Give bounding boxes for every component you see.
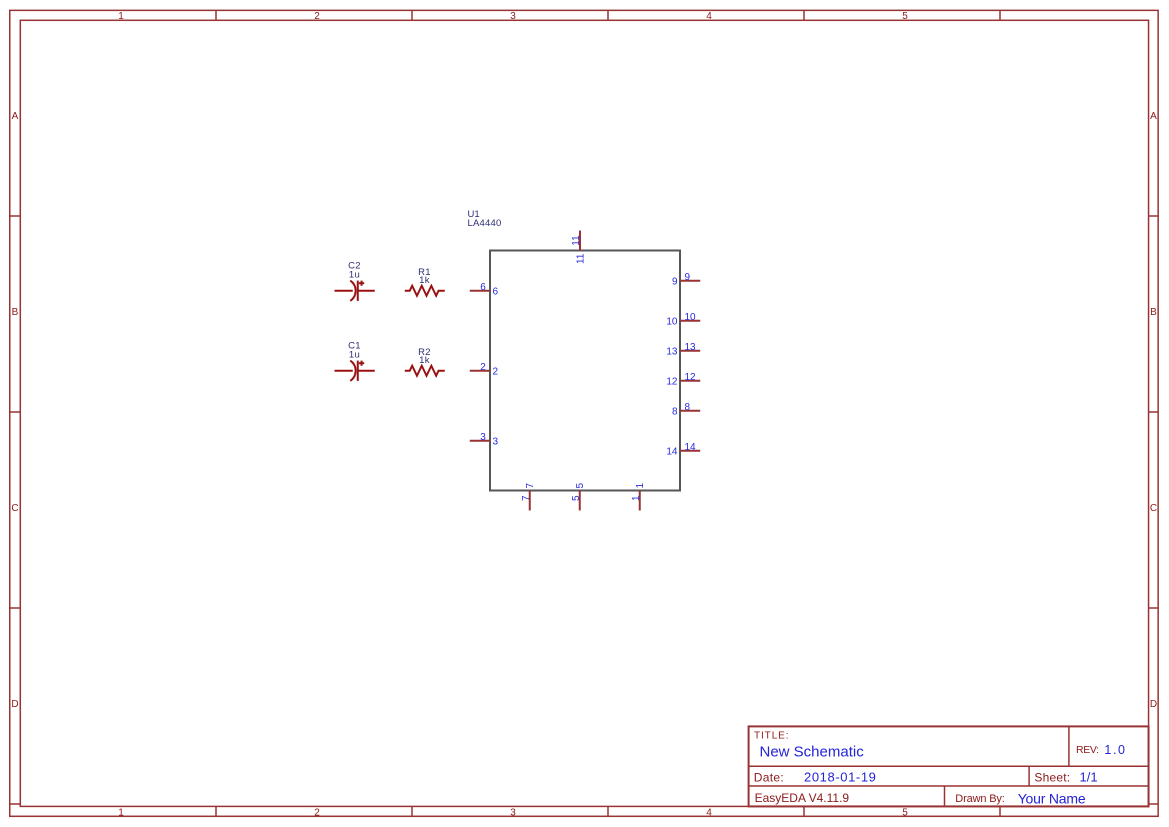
svg-text:5: 5 bbox=[575, 483, 586, 489]
svg-text:4: 4 bbox=[706, 11, 712, 22]
svg-text:8: 8 bbox=[672, 406, 678, 417]
svg-text:D: D bbox=[11, 699, 18, 710]
svg-text:1: 1 bbox=[635, 483, 646, 489]
svg-text:4: 4 bbox=[706, 808, 712, 819]
svg-text:6: 6 bbox=[480, 282, 486, 293]
svg-text:1/1: 1/1 bbox=[1080, 769, 1098, 784]
svg-text:3: 3 bbox=[510, 11, 516, 22]
svg-text:11: 11 bbox=[575, 253, 586, 264]
svg-text:9: 9 bbox=[672, 276, 678, 287]
svg-text:12: 12 bbox=[685, 372, 697, 383]
svg-text:10: 10 bbox=[685, 312, 697, 323]
svg-text:14: 14 bbox=[666, 446, 678, 457]
svg-text:1u: 1u bbox=[349, 349, 360, 360]
svg-text:13: 13 bbox=[685, 342, 697, 353]
svg-text:3: 3 bbox=[493, 436, 499, 447]
svg-text:5: 5 bbox=[902, 11, 908, 22]
svg-text:B: B bbox=[12, 307, 19, 318]
svg-text:13: 13 bbox=[666, 346, 678, 357]
svg-text:5: 5 bbox=[571, 495, 582, 501]
svg-text:8: 8 bbox=[685, 402, 691, 413]
svg-text:2: 2 bbox=[314, 11, 320, 22]
svg-text:C: C bbox=[11, 503, 18, 514]
svg-text:1: 1 bbox=[118, 11, 124, 22]
svg-text:New Schematic: New Schematic bbox=[760, 744, 865, 761]
svg-text:3: 3 bbox=[480, 432, 486, 443]
svg-text:A: A bbox=[1150, 111, 1157, 122]
svg-text:12: 12 bbox=[666, 376, 678, 387]
svg-text:2018-01-19: 2018-01-19 bbox=[804, 769, 877, 784]
svg-text:3: 3 bbox=[510, 808, 516, 819]
svg-text:D: D bbox=[1150, 699, 1157, 710]
svg-text:REV:: REV: bbox=[1076, 744, 1099, 756]
svg-text:TITLE:: TITLE: bbox=[754, 731, 789, 742]
svg-text:EasyEDA V4.11.9: EasyEDA V4.11.9 bbox=[755, 791, 850, 805]
svg-text:14: 14 bbox=[685, 442, 697, 453]
svg-text:Sheet:: Sheet: bbox=[1034, 770, 1070, 784]
svg-text:1k: 1k bbox=[419, 355, 430, 366]
svg-text:1.0: 1.0 bbox=[1104, 743, 1126, 757]
svg-text:10: 10 bbox=[666, 316, 678, 327]
svg-text:LA4440: LA4440 bbox=[468, 218, 502, 229]
svg-text:B: B bbox=[1150, 307, 1157, 318]
svg-text:11: 11 bbox=[571, 235, 582, 246]
svg-text:Drawn By:: Drawn By: bbox=[955, 793, 1004, 805]
svg-text:6: 6 bbox=[493, 286, 499, 297]
svg-text:1k: 1k bbox=[419, 275, 430, 286]
svg-text:7: 7 bbox=[521, 495, 532, 501]
svg-text:2: 2 bbox=[480, 362, 486, 373]
svg-text:9: 9 bbox=[685, 272, 691, 283]
svg-text:7: 7 bbox=[525, 483, 536, 489]
svg-text:C: C bbox=[1150, 503, 1157, 514]
svg-text:1: 1 bbox=[118, 808, 124, 819]
svg-text:Date:: Date: bbox=[754, 770, 784, 784]
svg-text:2: 2 bbox=[493, 366, 499, 377]
svg-text:2: 2 bbox=[314, 808, 320, 819]
svg-text:5: 5 bbox=[902, 808, 908, 819]
svg-text:A: A bbox=[12, 111, 19, 122]
svg-text:Your Name: Your Name bbox=[1018, 790, 1086, 806]
svg-text:1u: 1u bbox=[349, 269, 360, 280]
svg-text:1: 1 bbox=[631, 495, 642, 501]
